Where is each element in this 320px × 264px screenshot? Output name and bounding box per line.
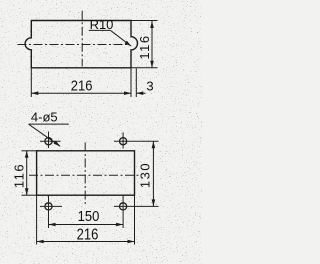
svg-text:216: 216	[71, 77, 93, 94]
svg-text:116: 116	[12, 163, 27, 188]
svg-text:4-ø5: 4-ø5	[31, 110, 58, 125]
svg-text:R10: R10	[90, 17, 114, 32]
svg-text:216: 216	[77, 227, 99, 244]
svg-text:130: 130	[138, 162, 153, 188]
svg-text:116: 116	[137, 34, 152, 59]
svg-text:150: 150	[78, 208, 100, 224]
svg-text:3: 3	[146, 79, 153, 94]
